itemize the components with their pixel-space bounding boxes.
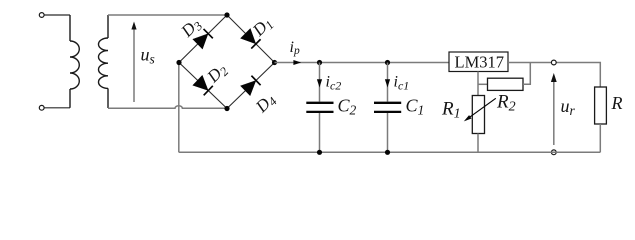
wire bridge left node to ground rail	[178, 63, 180, 153]
arrow ic1	[385, 79, 390, 87]
diode D4	[241, 76, 261, 96]
wire top rail bridge to LM317	[275, 62, 450, 64]
wire secondary top to bridge	[108, 14, 227, 16]
potentiometer wiper arrow	[464, 98, 496, 121]
diode D3	[193, 29, 213, 49]
node dot C1 bottom	[385, 150, 390, 155]
label D2	[203, 59, 232, 88]
arrow us	[131, 22, 136, 103]
resistor R2 box	[488, 78, 524, 90]
svg-text:LM317: LM317	[455, 53, 505, 72]
wire C1 branch lower	[387, 113, 389, 152]
wire LM317 out rail	[508, 62, 598, 64]
diode D2	[193, 75, 213, 95]
terminal circle top-left	[39, 13, 44, 18]
diode D1	[241, 29, 261, 49]
resistor R box	[595, 87, 607, 124]
inductor primary winding	[70, 15, 79, 108]
label D1	[248, 13, 277, 42]
terminal circle output bottom	[551, 150, 556, 155]
arrow ic2	[317, 79, 322, 87]
node dot C1 top	[385, 60, 390, 65]
regulator U1 LM317 box	[449, 52, 508, 72]
wire ADJ pin down	[477, 72, 479, 96]
capacitor C1	[374, 103, 401, 112]
potentiometer R1 box	[472, 96, 484, 134]
wire primary bottom	[44, 107, 70, 109]
wire C2 branch upper	[319, 63, 321, 102]
capacitor C2	[306, 103, 333, 112]
wire ADJ to R2	[478, 83, 488, 85]
node dot C2 bottom	[317, 150, 322, 155]
node dot C2 top	[317, 60, 322, 65]
wire C2 branch lower	[319, 113, 321, 152]
terminal circle output top	[551, 60, 556, 65]
arrow ip	[293, 60, 301, 65]
arrow ur	[551, 73, 557, 145]
wire load branch top	[598, 63, 600, 88]
wire load branch bottom	[599, 124, 601, 152]
wire secondary bottom to bridge with hop	[108, 106, 227, 109]
wire R1 bottom to rail	[477, 134, 479, 153]
node dot bridge bottom	[224, 106, 229, 111]
svg-text:R: R	[611, 93, 623, 113]
label D4	[251, 89, 280, 118]
wire C1 branch upper	[387, 63, 389, 102]
wire R2 right up to rail	[523, 63, 530, 85]
node dot bridge right	[272, 60, 277, 65]
wire primary top	[44, 14, 70, 16]
inductor secondary winding	[98, 15, 108, 108]
diode bridge edges	[179, 15, 275, 109]
node dot bridge left	[176, 60, 181, 65]
wire bottom rail	[179, 151, 601, 153]
label D3	[177, 14, 206, 43]
node dot bridge top	[224, 12, 229, 17]
terminal circle bottom-left	[39, 105, 44, 110]
